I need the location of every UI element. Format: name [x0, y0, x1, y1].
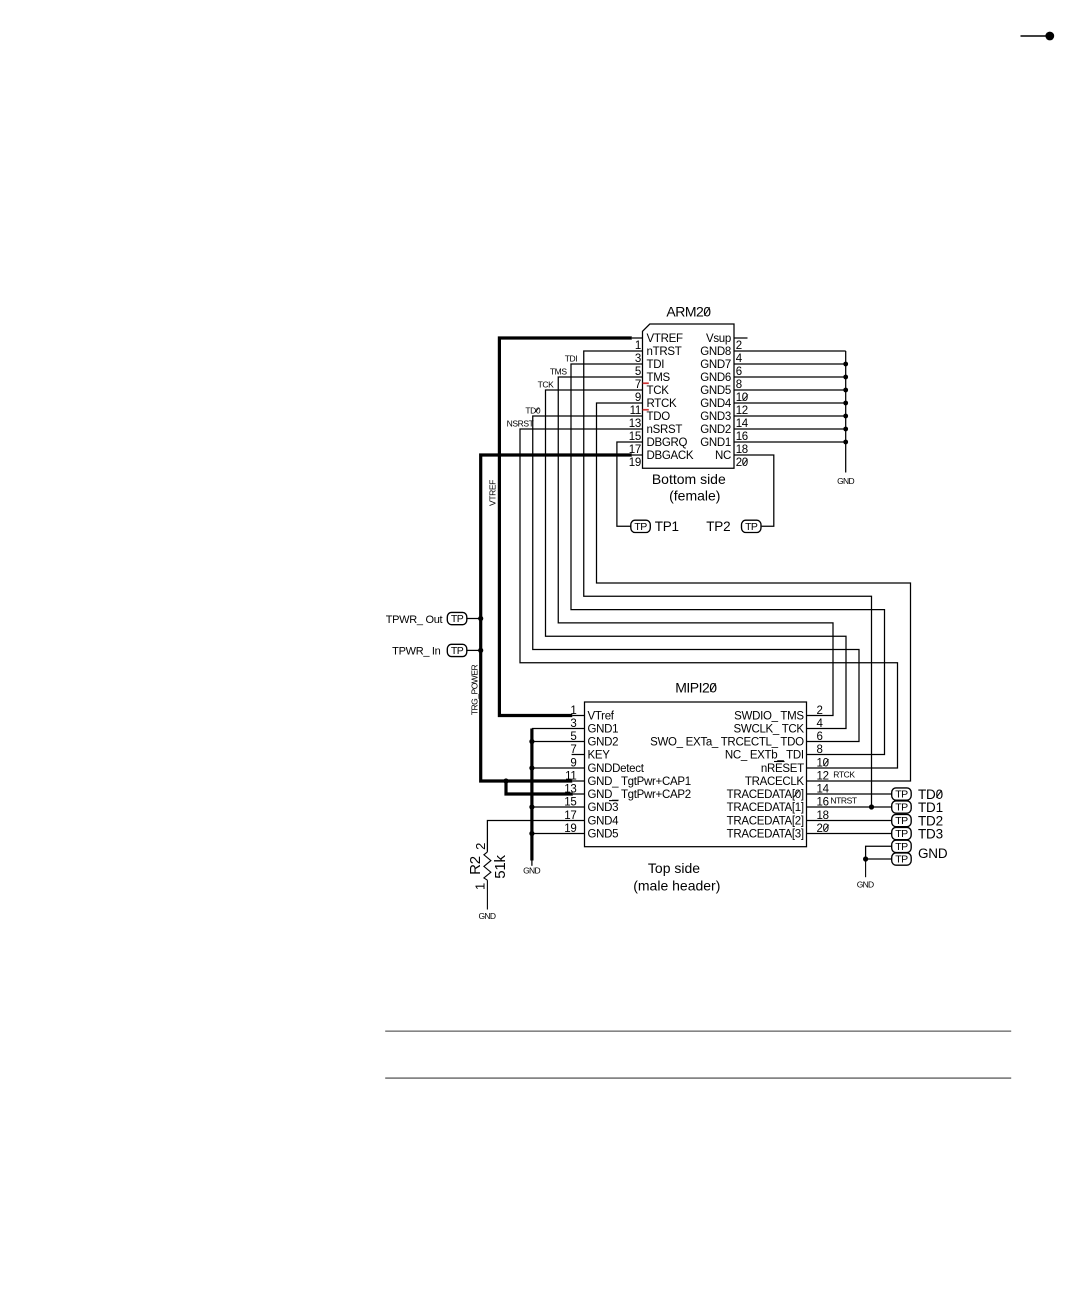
- svg-text:RTCK: RTCK: [647, 398, 678, 410]
- wire TMS: ARM20.7 to MIPI20.2 SWDIO_TMS: [558, 377, 833, 716]
- svg-text:Vsup: Vsup: [706, 333, 731, 345]
- svg-text:9: 9: [635, 392, 641, 404]
- svg-text:GND6: GND6: [700, 372, 731, 384]
- svg-text:TPWR_ In: TPWR_ In: [392, 646, 441, 658]
- pin stub MIPI20.11: [572, 780, 584, 782]
- wire MIPI20.15 to GND bus: [532, 806, 585, 808]
- ERC marker at ARM20 pin 7: [643, 382, 649, 384]
- svg-text:TD3: TD3: [918, 827, 943, 842]
- svg-text:SWDIO_ TMS: SWDIO_ TMS: [734, 711, 804, 723]
- wire TRACEDATA[1] MIPI20.16 to TD1: [807, 806, 892, 808]
- svg-text:TP1: TP1: [655, 519, 679, 534]
- test point GND b: [892, 853, 912, 865]
- wire TDI: ARM20.5 to MIPI20.8 EXTb_TDI: [571, 364, 885, 755]
- svg-text:51k: 51k: [492, 855, 509, 879]
- svg-text:SWCLK_ TCK: SWCLK_ TCK: [734, 724, 805, 736]
- slashed zero stroke: [824, 825, 829, 832]
- svg-text:nSRST: nSRST: [647, 424, 683, 436]
- svg-text:R2: R2: [467, 856, 484, 875]
- separator rule upper: [385, 1030, 1011, 1032]
- svg-text:13: 13: [629, 418, 641, 430]
- svg-text:KEY: KEY: [588, 750, 611, 762]
- wire R2.1 to ground: [486, 880, 488, 909]
- svg-text:3: 3: [635, 353, 641, 365]
- wire NTRST: ARM20.3 to MIPI20.16 junction: [584, 351, 872, 807]
- svg-text:TRACEDATA[2]: TRACEDATA[2]: [727, 816, 804, 828]
- page marker line (top right): [1021, 35, 1046, 37]
- svg-text:TRACEDATA[3]: TRACEDATA[3]: [727, 829, 804, 841]
- wire TRG_POWER branch to MIPI20.13 (thick): [506, 781, 573, 794]
- wire TCK: ARM20.9 to MIPI20.4 SWCLK_TCK: [546, 390, 847, 729]
- wire TRG_POWER net: ARM20.19 to MIPI20.11 (thick): [481, 455, 632, 781]
- svg-text:TP: TP: [451, 613, 464, 625]
- svg-text:VTREF: VTREF: [647, 333, 683, 345]
- svg-text:Bottom side: Bottom side: [652, 471, 726, 487]
- svg-text:GND3: GND3: [700, 411, 731, 423]
- svg-text:TP: TP: [895, 841, 908, 853]
- svg-text:SWO_ EXTa_ TRCECTL_ TDO: SWO_ EXTa_ TRCECTL_ TDO: [650, 737, 804, 749]
- wire RTCK: ARM20.11 to MIPI20.12 TRACECLK: [597, 403, 911, 781]
- slashed zero stroke: [743, 459, 748, 465]
- pin stub MIPI20.1: [572, 715, 584, 717]
- svg-text:GND_ TgtPwr+CAP1: GND_ TgtPwr+CAP1: [588, 776, 691, 788]
- svg-text:TP: TP: [745, 521, 758, 533]
- svg-text:GND: GND: [918, 846, 948, 861]
- svg-text:NC_ EXTb_ TDI: NC_ EXTb_ TDI: [725, 750, 804, 762]
- svg-text:GND: GND: [479, 911, 496, 921]
- pin stub Vsup ARM20.2: [734, 337, 748, 339]
- svg-text:(male header): (male header): [633, 877, 720, 893]
- svg-text:GND1: GND1: [700, 437, 731, 449]
- svg-text:TP: TP: [451, 645, 464, 657]
- svg-text:GND5: GND5: [700, 385, 731, 397]
- resistor R2 51k: [484, 852, 491, 880]
- pin stub ARM20.1: [632, 337, 643, 339]
- test point TD2: [892, 814, 912, 826]
- svg-text:GND4: GND4: [700, 398, 732, 410]
- wire GND bus MIPI20.3 (thick vertical): [532, 728, 585, 730]
- test point TD1: [892, 801, 912, 813]
- svg-text:TPWR_ Out: TPWR_ Out: [386, 614, 443, 626]
- svg-text:TP: TP: [634, 521, 647, 533]
- junction NTRST on TRACEDATA[1]/TD1 wire: [869, 804, 874, 809]
- svg-text:TD0: TD0: [525, 405, 541, 415]
- svg-text:TP: TP: [895, 815, 908, 827]
- svg-text:VTref: VTref: [588, 711, 615, 723]
- wire MIPI20.17 GND4 to resistor R2: [487, 821, 584, 852]
- connector ARM20 (bottom side, female) body: [643, 324, 735, 468]
- svg-text:DBGRQ: DBGRQ: [647, 437, 688, 449]
- slashed zero stroke: [743, 395, 748, 401]
- svg-text:TRACEDATA[0]: TRACEDATA[0]: [727, 789, 804, 801]
- svg-text:TRG_POWER: TRG_POWER: [469, 664, 479, 715]
- junction GND bus: [529, 831, 534, 836]
- svg-text:GND8: GND8: [700, 346, 731, 358]
- test point TP2: [742, 520, 762, 532]
- wire GND rail from ARM20 pins 4-18: [734, 351, 846, 473]
- svg-text:GND2: GND2: [588, 737, 619, 749]
- slashed zero stroke: [936, 790, 941, 797]
- svg-text:GND3: GND3: [588, 802, 619, 814]
- svg-text:TRACEDATA[1]: TRACEDATA[1]: [727, 802, 804, 814]
- svg-text:MIPI20: MIPI20: [675, 680, 717, 696]
- svg-text:RTCK: RTCK: [833, 770, 855, 780]
- junction GND rail: [843, 427, 848, 432]
- svg-text:TP: TP: [895, 789, 908, 801]
- junction GND rail: [843, 414, 848, 419]
- svg-text:TP2: TP2: [706, 519, 730, 534]
- slashed zero stroke: [710, 683, 715, 691]
- wire MIPI20.9 to GND bus: [532, 767, 585, 769]
- junction GND bus: [529, 804, 534, 809]
- pin stub ARM20.19: [632, 454, 643, 456]
- svg-text:1: 1: [635, 340, 641, 352]
- wire TDO: ARM20.13 to MIPI20.6 TRCECTL_TDO: [533, 416, 859, 742]
- junction GND rail: [843, 388, 848, 393]
- svg-text:2: 2: [473, 843, 488, 850]
- svg-text:TCK: TCK: [647, 385, 670, 397]
- junction TRG_POWER branch: [503, 778, 508, 783]
- wire to ground symbol: [865, 859, 867, 877]
- wire TPWR_Out stub: [467, 618, 481, 620]
- svg-text:20: 20: [736, 457, 748, 469]
- svg-text:TMS: TMS: [550, 366, 567, 376]
- svg-text:GNDDetect: GNDDetect: [588, 763, 645, 775]
- svg-text:VTREF: VTREF: [488, 480, 498, 506]
- svg-text:GND: GND: [837, 476, 854, 486]
- svg-text:NC: NC: [715, 450, 731, 462]
- test point TP1: [631, 520, 651, 532]
- wire MIPI20.5 to GND bus: [532, 741, 585, 743]
- svg-text:(female): (female): [669, 488, 720, 504]
- test point TD3: [892, 827, 912, 839]
- svg-text:GND1: GND1: [588, 724, 619, 736]
- junction GND rail: [843, 401, 848, 406]
- ERC marker at ARM20 pin 11: [643, 409, 649, 411]
- svg-text:Top side: Top side: [648, 860, 700, 876]
- svg-text:ARM20: ARM20: [666, 304, 711, 320]
- svg-text:TMS: TMS: [647, 372, 671, 384]
- svg-text:TP: TP: [895, 802, 908, 814]
- svg-text:GND2: GND2: [700, 424, 731, 436]
- svg-text:TDI: TDI: [565, 353, 578, 363]
- wire DBGRQ ARM20.17 to TP1: [617, 442, 643, 526]
- slashed zero stroke: [794, 791, 799, 798]
- svg-text:11: 11: [630, 405, 641, 417]
- page marker dot: [1045, 32, 1054, 41]
- wire TRACEDATA[3] MIPI20.20 to TD3: [807, 833, 892, 835]
- separator rule lower: [385, 1077, 1011, 1079]
- svg-text:NSRST: NSRST: [507, 418, 534, 428]
- slashed zero stroke: [823, 759, 828, 766]
- overbar on GND3 label: [609, 800, 618, 802]
- pin stub MIPI20.13: [573, 793, 585, 795]
- junction GND rail: [843, 440, 848, 445]
- test point TD0: [892, 788, 912, 800]
- svg-text:GND4: GND4: [588, 816, 620, 828]
- wire NSRST: ARM20.15 to MIPI20.10 nRESET: [520, 429, 898, 768]
- wire VTREF net: ARM20.1 to MIPI20.1 (thick): [499, 338, 631, 716]
- svg-text:15: 15: [629, 431, 641, 443]
- svg-text:TP: TP: [895, 854, 908, 866]
- slashed zero stroke: [704, 307, 709, 315]
- junction GND test points: [863, 856, 868, 861]
- junction GND bus: [529, 739, 534, 744]
- pin stub KEY MIPI20.7: [572, 754, 585, 756]
- test point TPWR_In: [447, 644, 467, 656]
- svg-text:GND: GND: [523, 866, 540, 876]
- svg-text:TCK: TCK: [538, 379, 555, 389]
- wire NC ARM20.20 to TP2: [734, 455, 774, 526]
- svg-text:TDI: TDI: [647, 359, 665, 371]
- junction GND rail: [843, 375, 848, 380]
- svg-text:TP: TP: [895, 828, 908, 840]
- wire TRACEDATA[0] MIPI20.14 to TD0: [807, 793, 892, 795]
- svg-text:nRESET: nRESET: [761, 763, 804, 775]
- svg-text:TDO: TDO: [647, 411, 671, 423]
- test point TPWR_Out: [447, 612, 467, 624]
- svg-text:GND5: GND5: [588, 829, 619, 841]
- svg-text:5: 5: [635, 366, 641, 378]
- slashed zero stroke: [535, 408, 539, 412]
- overbar on nRESET label: [774, 761, 785, 763]
- connector MIPI20 (top side, male header) body: [585, 702, 807, 847]
- svg-text:NTRST: NTRST: [830, 796, 857, 806]
- wire GND test points: [866, 846, 892, 859]
- wire TPWR_In stub: [467, 649, 481, 651]
- wire MIPI20.19 to GND bus: [532, 833, 585, 835]
- svg-text:TRACECLK: TRACECLK: [745, 776, 805, 788]
- junction GND rail: [843, 362, 848, 367]
- junction GND bus: [529, 765, 534, 770]
- svg-text:19: 19: [629, 457, 641, 469]
- test point GND a: [892, 840, 912, 852]
- svg-text:GND: GND: [857, 879, 874, 889]
- svg-text:7: 7: [635, 379, 641, 391]
- junction TPWR_Out tap: [478, 616, 483, 621]
- wire TRACEDATA[2] MIPI20.18 to TD2: [807, 820, 892, 822]
- svg-text:GND7: GND7: [700, 359, 731, 371]
- junction TPWR_In tap: [478, 648, 483, 653]
- svg-text:GND_ TgtPwr+CAP2: GND_ TgtPwr+CAP2: [588, 789, 691, 801]
- svg-text:DBGACK: DBGACK: [647, 450, 694, 462]
- svg-text:1: 1: [472, 883, 487, 890]
- svg-text:nTRST: nTRST: [647, 346, 682, 358]
